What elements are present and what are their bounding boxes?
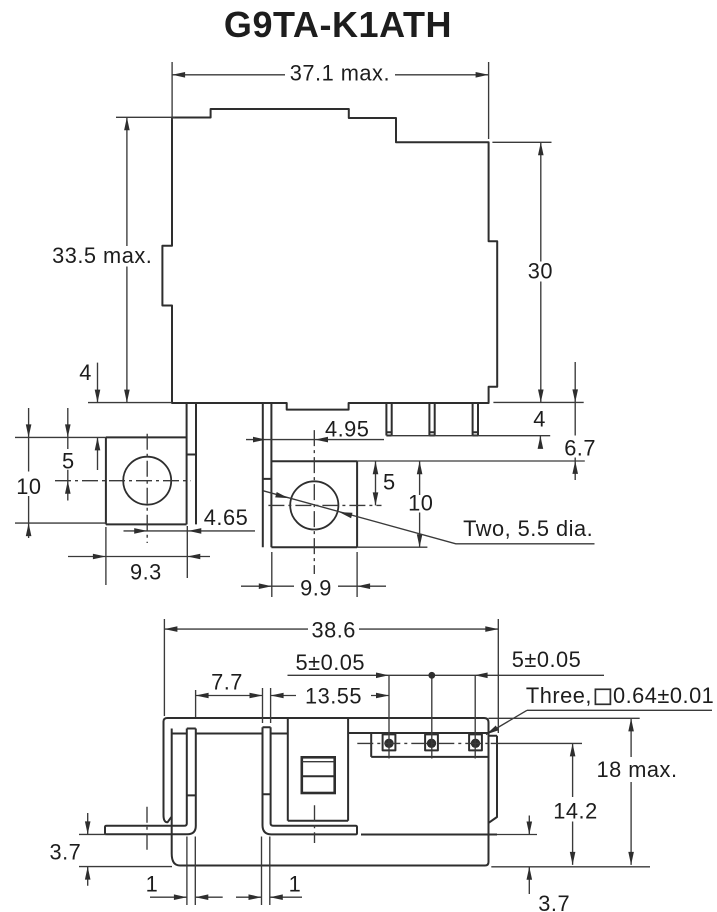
dimension 37.1 max. — [172, 61, 489, 139]
tab1 hole centerline — [146, 807, 148, 853]
svg-text:5±0.05: 5±0.05 — [296, 650, 366, 675]
svg-text:38.6: 38.6 — [311, 618, 355, 643]
body left outer edge with hook — [164, 722, 172, 823]
pin bottom extension line — [392, 435, 551, 437]
bracket 2 hole — [290, 481, 338, 529]
svg-text:9.3: 9.3 — [130, 560, 162, 585]
dimension 38.6 — [164, 618, 498, 734]
dimension 3.7 bottom right — [527, 816, 571, 912]
inner step line — [172, 733, 288, 735]
dimension 1 right — [236, 837, 302, 906]
pin 3 — [473, 403, 478, 436]
tab2 hole centerline — [314, 805, 316, 843]
dimension 3.7 left — [49, 813, 172, 886]
dimension 9.9 — [241, 552, 386, 601]
svg-text:37.1 max.: 37.1 max. — [290, 61, 390, 86]
bracket 1 hole — [123, 457, 171, 505]
svg-text:Three,: Three, — [526, 683, 592, 708]
center block inner box — [302, 757, 335, 793]
dimension 13.55 — [271, 684, 389, 709]
svg-text:0.64±0.01: 0.64±0.01 — [613, 683, 714, 708]
relay body outline (front view) — [162, 109, 497, 410]
dimension 4 right — [533, 407, 546, 449]
bracket 1 upright — [187, 403, 196, 524]
terminal 2 — [425, 675, 438, 758]
tab1 bottom extension line — [15, 522, 106, 524]
body left inner edge — [172, 729, 180, 866]
terminal 1 — [383, 675, 396, 758]
tab1 top extension line — [15, 436, 106, 438]
dimension 5 left — [62, 408, 75, 501]
dimension 4 left — [79, 360, 100, 470]
terminal recess — [348, 733, 488, 757]
dimension 30 — [492, 142, 553, 402]
svg-text:4.65: 4.65 — [204, 505, 248, 530]
bracket 2 upright — [263, 403, 272, 547]
svg-text:4: 4 — [79, 360, 92, 385]
dimension 14.2 — [553, 743, 597, 865]
body right bottom step — [361, 834, 497, 836]
dimension 6.7 — [564, 362, 596, 480]
svg-text:9.9: 9.9 — [300, 576, 332, 601]
leader Three, square 0.64±0.01 — [486, 683, 714, 734]
bracket 2 tab — [271, 461, 357, 547]
bracket2 tab top extension line — [357, 460, 585, 462]
dimension 18 max. — [489, 718, 678, 867]
body bottom extension line left — [88, 402, 172, 404]
svg-text:3.7: 3.7 — [49, 839, 81, 864]
dimension 10 middle — [357, 461, 433, 547]
dimension 10 left — [16, 408, 41, 538]
svg-text:G9TA-K1ATH: G9TA-K1ATH — [224, 4, 452, 45]
svg-text:1: 1 — [289, 872, 302, 897]
svg-text:4: 4 — [533, 407, 546, 432]
tab plane extension line right — [497, 834, 537, 836]
center block — [288, 718, 348, 821]
bracket 2 hole centerlines — [268, 430, 381, 574]
body top edge (side view) — [164, 718, 489, 723]
bracket 1 hole centerlines — [55, 434, 190, 543]
pin 1 — [386, 403, 391, 436]
dimension 7.7 — [196, 669, 271, 723]
body bottom edge — [180, 865, 485, 867]
svg-text:18 max.: 18 max. — [596, 757, 677, 782]
svg-text:10: 10 — [16, 474, 41, 499]
svg-text:3.7: 3.7 — [538, 891, 570, 912]
dimension 9.3 — [68, 527, 210, 585]
svg-text:1: 1 — [146, 872, 159, 897]
dimension 1 left — [146, 837, 223, 906]
body bottom extension line right — [493, 401, 583, 403]
svg-text:33.5 max.: 33.5 max. — [52, 243, 152, 268]
leader Two, 5.5 dia. — [263, 491, 594, 544]
bracket 2 strip (side view) — [263, 727, 358, 834]
body right rim — [489, 736, 498, 823]
svg-text:5±0.05: 5±0.05 — [512, 647, 582, 672]
svg-text:13.55: 13.55 — [305, 684, 362, 709]
svg-text:30: 30 — [528, 259, 553, 284]
svg-text:6.7: 6.7 — [564, 435, 596, 460]
svg-text:7.7: 7.7 — [211, 669, 243, 694]
svg-text:5: 5 — [383, 470, 396, 495]
dimension 4.95 — [246, 417, 384, 443]
svg-text:14.2: 14.2 — [553, 798, 597, 823]
pin 2 — [429, 403, 434, 436]
terminal 3 — [469, 675, 482, 758]
body right edge — [485, 723, 489, 866]
bracket 1 tab — [106, 437, 187, 524]
dimension 4.65 — [124, 505, 256, 578]
svg-text:10: 10 — [408, 491, 433, 516]
svg-text:Two, 5.5 dia.: Two, 5.5 dia. — [463, 516, 593, 541]
svg-text:5: 5 — [62, 449, 75, 474]
terminal row centerline — [357, 742, 490, 744]
svg-text:4.95: 4.95 — [325, 417, 369, 442]
dimension 33.5 max. — [52, 117, 175, 402]
dimension 5±0.05 left — [288, 650, 605, 679]
bracket 1 strip (side view) — [105, 729, 196, 835]
dimension 5 middle — [373, 461, 396, 505]
